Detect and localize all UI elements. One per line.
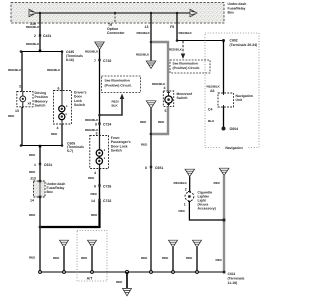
svg-text:RED/BLK: RED/BLK	[85, 50, 99, 54]
dashed arrow into illumination circuit (right)	[182, 41, 184, 53]
svg-text:13: 13	[145, 25, 149, 29]
wire F9 vertical	[176, 13, 178, 41]
see illumination circuit box (left)	[102, 76, 141, 93]
connector C732 pin 14	[98, 199, 100, 201]
under-dash fuse/relay box (top)	[11, 3, 224, 24]
gray wire below moonroof	[152, 106, 168, 134]
see illumination circuit box (right)	[170, 60, 210, 73]
svg-text:Switch: Switch	[177, 96, 188, 100]
svg-text:9: 9	[95, 123, 97, 127]
svg-text:RED: RED	[53, 256, 60, 260]
svg-text:RED: RED	[8, 114, 15, 118]
svg-text:A/T: A/T	[87, 277, 94, 281]
bulb 1	[96, 150, 102, 156]
svg-text:RED: RED	[51, 132, 58, 136]
svg-text:RED: RED	[91, 192, 98, 196]
A/T dotted box	[77, 231, 107, 282]
svg-text:G604: G604	[230, 127, 239, 131]
svg-text:7: 7	[94, 59, 96, 63]
svg-text:Switch: Switch	[74, 103, 85, 107]
node 13/moonroof branch	[150, 41, 153, 44]
svg-text:Box: Box	[47, 190, 54, 194]
svg-text:C802: C802	[230, 39, 238, 43]
svg-text:RED: RED	[179, 209, 186, 213]
right gray column	[219, 168, 229, 175]
svg-text:8: 8	[145, 166, 147, 170]
wire F9 to C802	[177, 40, 223, 42]
svg-text:(Positive) Circuit.: (Positive) Circuit.	[173, 66, 200, 70]
svg-text:1: 1	[184, 203, 186, 207]
svg-text:C431: C431	[43, 34, 51, 38]
svg-text:C651: C651	[155, 166, 163, 170]
C802 connector	[222, 39, 225, 42]
svg-text:11-19): 11-19)	[228, 281, 238, 285]
svg-text:Moonroof: Moonroof	[177, 92, 193, 96]
svg-text:RED/BLK: RED/BLK	[137, 31, 151, 35]
svg-text:RED/BLK: RED/BLK	[207, 85, 221, 89]
svg-text:RED/BLK: RED/BLK	[8, 68, 22, 72]
svg-text:C611: C611	[228, 272, 236, 276]
svg-text:3: 3	[96, 132, 98, 136]
bulb 2 driver's	[59, 114, 65, 120]
arrow into illumination circuit (left)	[100, 98, 123, 115]
svg-text:8: 8	[94, 185, 96, 189]
svg-text:RED: RED	[162, 256, 169, 260]
svg-text:2: 2	[34, 34, 36, 38]
under-dash fuse/relay box (lower)	[34, 180, 46, 198]
svg-text:5-7): 5-7)	[67, 149, 73, 153]
svg-text:2: 2	[185, 187, 187, 191]
svg-text:BLK: BLK	[112, 104, 119, 108]
wire (gray) to moonroof switch	[152, 42, 168, 91]
svg-text:14: 14	[91, 199, 95, 203]
node to illumination arrow	[98, 114, 101, 117]
svg-text:C726: C726	[103, 185, 111, 189]
connector C631 pin 1	[39, 163, 41, 165]
connector C651 pin 8	[150, 166, 152, 168]
svg-text:RED: RED	[140, 120, 147, 124]
svg-text:RED: RED	[81, 256, 88, 260]
svg-text:Switch: Switch	[111, 149, 122, 153]
connector C726 pin 8	[98, 184, 100, 186]
svg-text:RED/BLK: RED/BLK	[26, 42, 40, 46]
connector C635 label	[66, 50, 83, 62]
drop wire with arrow (bottom center)	[126, 271, 129, 274]
under-dash fuse/relay box label	[228, 2, 247, 14]
arrow-fed ground wire 3	[169, 240, 178, 247]
svg-text:C732: C732	[103, 199, 111, 203]
svg-text:5: 5	[165, 109, 167, 113]
svg-text:RED: RED	[116, 280, 123, 284]
svg-text:F9: F9	[170, 25, 174, 29]
wire below front passenger switch	[99, 169, 101, 200]
option connector T9 dashed stub	[114, 13, 116, 23]
left horizontal join (bottom) C605	[21, 145, 62, 147]
svg-text:RED: RED	[214, 181, 221, 185]
svg-text:(Terminals 20-24): (Terminals 20-24)	[230, 43, 258, 47]
G651 column	[146, 101, 156, 108]
left horizontal join (top)	[21, 51, 62, 53]
cigarette lighter column	[185, 169, 195, 176]
svg-text:RED: RED	[141, 143, 148, 147]
svg-text:RED: RED	[91, 213, 98, 217]
svg-text:RED: RED	[141, 256, 148, 260]
svg-text:RED: RED	[216, 258, 223, 262]
svg-text:RED: RED	[88, 176, 95, 180]
svg-text:RED: RED	[29, 213, 36, 217]
svg-text:4: 4	[164, 86, 166, 90]
svg-text:C732: C732	[103, 59, 111, 63]
bus wire inside fuse box	[36, 12, 190, 14]
svg-text:Box: Box	[228, 11, 235, 15]
svg-text:RED: RED	[158, 120, 165, 124]
wire below lower fuse box	[39, 198, 41, 272]
svg-text:4: 4	[94, 171, 96, 175]
wire 13 vertical	[150, 13, 152, 61]
arrow from another circuit (center column)	[95, 42, 105, 50]
svg-text:RED/BLK: RED/BLK	[179, 31, 193, 35]
connector C431	[39, 34, 41, 36]
wire down from C605 join	[39, 146, 41, 182]
svg-text:C631: C631	[44, 163, 52, 167]
svg-text:Unit: Unit	[236, 98, 243, 102]
svg-text:See Illumination: See Illumination	[105, 79, 130, 83]
ground G604	[222, 127, 226, 131]
bulb 1 driver's	[59, 106, 65, 112]
node F9	[176, 39, 179, 42]
svg-text:8-16): 8-16)	[66, 58, 74, 62]
wire J19 vertical	[39, 13, 41, 52]
svg-text:4: 4	[57, 126, 59, 130]
thick wire to J13 branch	[40, 201, 100, 227]
svg-text:Switch: Switch	[35, 104, 46, 108]
svg-text:RED: RED	[29, 170, 36, 174]
svg-text:14: 14	[30, 198, 34, 202]
bottom bus line	[40, 271, 224, 273]
svg-text:RED/BLK: RED/BLK	[136, 53, 150, 57]
svg-text:(Positive) Circuit.: (Positive) Circuit.	[105, 83, 132, 87]
svg-text:RED/BLK: RED/BLK	[174, 181, 188, 185]
svg-text:Accessory): Accessory)	[198, 207, 216, 211]
svg-text:RED/BLK: RED/BLK	[26, 25, 40, 29]
svg-text:RED/BLK: RED/BLK	[85, 118, 99, 122]
svg-text:3: 3	[19, 85, 21, 89]
C611 label	[228, 272, 245, 285]
svg-text:BLU: BLU	[208, 119, 214, 123]
svg-text:RED/BLK: RED/BLK	[169, 48, 183, 52]
connector C732 pin 7	[98, 59, 100, 61]
wire center column	[99, 50, 101, 201]
arrow-fed ground wire 1	[60, 240, 69, 247]
svg-text:RED: RED	[29, 256, 36, 260]
bus arrow left	[29, 9, 36, 17]
svg-text:C724: C724	[103, 123, 111, 127]
arrow-fed ground wire 2 (A/T)	[88, 240, 97, 247]
arrow-fed ground wire 4	[193, 240, 202, 247]
bulb memory switch	[20, 96, 26, 102]
front passenger's door lock switch	[90, 136, 109, 169]
svg-text:10: 10	[15, 109, 19, 113]
svg-text:RED/BLK: RED/BLK	[47, 68, 61, 72]
svg-text:Navigation: Navigation	[225, 146, 242, 150]
driving position memory switch branch	[21, 52, 23, 92]
navigation dotted enclosure	[205, 33, 259, 151]
arrow to other circuit (13)	[146, 61, 156, 69]
bus junction nodes	[39, 12, 41, 14]
svg-text:Connector: Connector	[107, 31, 125, 35]
svg-text:J13: J13	[30, 177, 36, 181]
svg-text:RED: RED	[186, 256, 193, 260]
svg-text:(Terminals: (Terminals	[228, 277, 245, 281]
svg-text:C4: C4	[208, 108, 213, 112]
svg-text:RED: RED	[29, 153, 36, 157]
svg-text:6: 6	[58, 87, 60, 91]
cigarette lighter wire to right column	[189, 202, 224, 221]
svg-text:See Illumination: See Illumination	[173, 61, 198, 65]
wire C802 to navigation unit	[223, 41, 225, 94]
bulb 2	[96, 158, 102, 164]
navigation unit	[218, 93, 234, 107]
wire navigation to ground	[223, 107, 225, 127]
svg-text:A6: A6	[210, 89, 215, 93]
bus arrow right	[190, 9, 197, 17]
svg-text:X8: X8	[28, 102, 32, 106]
driver's door lock switch branch	[61, 52, 63, 91]
svg-text:1: 1	[34, 163, 36, 167]
